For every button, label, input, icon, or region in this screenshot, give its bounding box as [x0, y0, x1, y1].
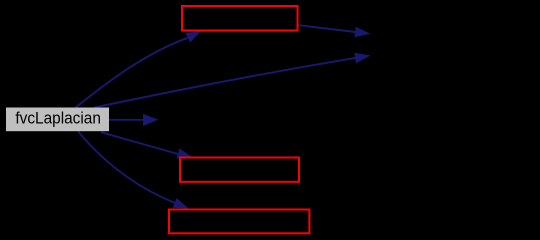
edge fvcLaplacian -> bottom truncated node: [78, 131, 175, 203]
edge fvcLaplacian -> hidden middle node (short horizontal): [108, 119, 144, 121]
truncated node bottom (red box): [169, 210, 309, 234]
arrowhead (horizontal): [143, 114, 159, 126]
edge fvcLaplacian -> right node: [94, 58, 355, 108]
arrowhead into top truncated node: [185, 31, 201, 43]
truncated node middle (red box): [180, 158, 299, 182]
edge fvcLaplacian -> middle truncated node: [101, 132, 178, 154]
edge fvcLaplacian -> top truncated node: [75, 38, 188, 108]
arrowhead into bottom truncated node: [173, 198, 189, 209]
truncated node top (red box): [182, 6, 298, 31]
arrowhead into right node (lower): [354, 53, 370, 64]
edge top truncated node -> right node: [299, 25, 356, 32]
svg-text:fvcLaplacian: fvcLaplacian: [15, 110, 101, 128]
arrowhead into middle truncated node: [177, 148, 193, 158]
node fvcLaplacian (grey box): [6, 108, 109, 132]
arrowhead into right node (upper): [355, 27, 371, 38]
